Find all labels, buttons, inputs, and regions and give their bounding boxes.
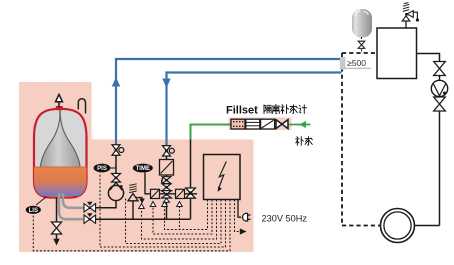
expansion vessel shell <box>34 109 87 198</box>
return drop pipe <box>439 111 441 226</box>
gray overflow pipe into vessel <box>59 193 83 219</box>
flow arrow down on right riser <box>162 79 170 89</box>
label glyph 离 <box>272 105 279 114</box>
overflow valve stack: hourglass 3 (motorised) <box>162 191 172 198</box>
pink control-unit panel (L shape) <box>19 82 254 252</box>
dashed connection pipe (vertical) <box>341 53 343 226</box>
drop from strainer2 <box>179 206 181 230</box>
fillset water meter <box>261 119 275 129</box>
svg-text:230V 50Hz: 230V 50Hz <box>262 213 308 223</box>
pump P1 <box>108 185 123 200</box>
overflow valve stack: hourglass 2 <box>162 184 171 191</box>
flow arrow up on left riser <box>112 77 120 87</box>
contact water meter <box>160 160 174 176</box>
make-up water green line <box>191 125 232 140</box>
fillset pink strip <box>229 118 292 131</box>
vessel drain line <box>56 198 58 223</box>
make-up feed drop from fillset <box>190 140 192 187</box>
>=500 distance label <box>346 58 367 68</box>
svg-text:Fillset: Fillset <box>226 105 258 117</box>
TIME label <box>133 164 153 173</box>
overflow relief valve with spring <box>132 201 134 219</box>
pump isolation valve <box>112 174 121 183</box>
lightning bolt <box>219 162 227 189</box>
overflow hook pipe <box>78 99 85 114</box>
safety outlet arm with drip dot <box>413 12 417 18</box>
drain valve <box>52 222 62 234</box>
mains plug symbol <box>243 213 248 221</box>
dashed connection pipe (bottom horizontal to consumer) <box>342 225 381 227</box>
supply arrow <box>299 121 306 128</box>
fillset shut-off valve <box>276 120 288 129</box>
LIS level sensor label <box>36 197 46 205</box>
blue expansion line (left riser) <box>116 59 342 144</box>
svg-text:≥500: ≥500 <box>347 58 366 68</box>
mains cable to plug <box>238 200 241 218</box>
补水 label: glyph 水 <box>305 137 312 145</box>
fillset strainer <box>231 119 245 129</box>
safety valve spring <box>403 3 409 12</box>
strainer box 1 <box>151 189 160 198</box>
PIS pressure sensor label <box>109 167 116 169</box>
vent arrow on vessel top <box>56 94 63 107</box>
overflow valve stack: hourglass 1 <box>162 177 171 184</box>
补水 label: glyph 补 <box>296 137 304 146</box>
circulation pump <box>431 80 447 96</box>
bus run 1 <box>165 200 208 230</box>
pipe coupling mark <box>340 57 346 70</box>
control box <box>204 155 241 200</box>
vessel bladder (teardrop) <box>34 112 87 196</box>
bus run 3 <box>142 200 217 240</box>
make-up solenoid valve M2 <box>190 187 192 220</box>
safety valve riser <box>405 21 407 29</box>
TIME drop line and make-up branch <box>145 173 197 194</box>
circuit valve lower <box>434 97 446 111</box>
overflow header pipe <box>96 218 191 220</box>
heating circuit supply pipe <box>417 54 440 62</box>
gray pump suction pipe from vessel <box>63 193 84 208</box>
actuator arrowheads <box>139 202 183 209</box>
green supply stub <box>289 124 311 126</box>
fillset backflow preventer <box>246 119 260 129</box>
safety valve outlet (triangle left) <box>407 11 413 18</box>
return riser pipe <box>166 156 168 159</box>
svg-text:LIS: LIS <box>29 208 38 214</box>
fault signal dashed line with arrow <box>235 200 241 232</box>
bus run 2 <box>153 200 212 235</box>
bus run 5 (PIS) <box>100 173 226 247</box>
drain outlet arrow <box>56 234 58 240</box>
dashed connection pipe (top horizontal to boiler) <box>342 52 377 54</box>
MAG expansion vessel <box>352 9 372 38</box>
left riser pipe to pump <box>115 156 117 175</box>
svg-text:PIS: PIS <box>97 166 107 172</box>
safety valve body (triangle up) <box>402 16 410 21</box>
heat consumer circle <box>381 209 415 243</box>
actuator link triangle below M1 <box>163 198 169 202</box>
motor valve B (vessel overflow) <box>84 213 96 223</box>
cap valve V2 on return riser <box>163 146 175 156</box>
label glyph 隔 <box>264 105 271 114</box>
strainer box 2 <box>176 189 185 198</box>
svg-text:TIME: TIME <box>136 166 150 172</box>
water band <box>34 167 87 196</box>
label glyph 计 <box>299 105 306 114</box>
control bus: actuator drop M2 area <box>33 173 230 251</box>
bus run 6 (LIS) <box>33 200 230 251</box>
bladder stem <box>59 109 61 121</box>
motor valve A (vessel suction) <box>84 202 96 212</box>
vessel top collar <box>56 106 63 110</box>
cap valve V1 on left riser <box>112 145 124 155</box>
bus run 4 (pump) <box>126 197 222 244</box>
blue return line (right riser) <box>167 73 342 146</box>
circuit valve upper <box>434 62 446 76</box>
circuit pipe <box>439 76 441 81</box>
MAG connection valve <box>361 37 363 41</box>
boiler <box>377 28 417 79</box>
label glyph 补 <box>281 105 289 114</box>
free outlet crescent <box>162 178 163 185</box>
consumer connection pipe <box>415 225 440 227</box>
pump outlet to suction header <box>96 201 116 208</box>
label glyph 水 <box>290 105 297 114</box>
